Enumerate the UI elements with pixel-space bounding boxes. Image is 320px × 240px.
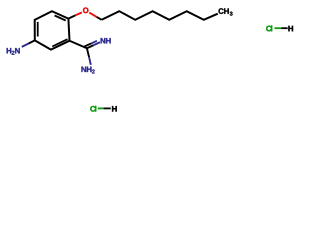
label H2N — [7, 48, 12, 53]
benzene ring outer bonds — [35, 11, 70, 49]
bond ring to O black half — [68, 15, 75, 18]
ring double bond inner line top-right edge — [55, 16, 66, 21]
label Cl of first HCl — [266, 26, 271, 32]
label CH3 — [219, 8, 224, 14]
bond ring to amine nitrogen blue half — [22, 44, 29, 47]
label Cl of second HCl — [90, 106, 95, 112]
amidine C=NH double bond main line blue half — [93, 42, 100, 45]
bond ring to amine nitrogen black half — [29, 40, 35, 43]
first HCl bond green half — [275, 27, 282, 29]
label NH2 — [81, 67, 86, 72]
label NH imine — [101, 38, 106, 43]
bond amidine C to NH2 black half — [87, 48, 89, 57]
bond amidine C to NH2 blue half — [89, 57, 91, 65]
bond O to chain C1 red half — [89, 13, 96, 17]
label H of second HCl — [112, 106, 117, 111]
label O — [83, 8, 88, 14]
second HCl bond black half — [104, 107, 111, 109]
bond ring to O red half — [75, 12, 82, 15]
label H of first HCl — [288, 26, 293, 31]
amidine C=NH double bond inner line black half — [84, 43, 91, 46]
bond O to chain C1 black half — [97, 17, 102, 20]
ring double bond inner line bottom-right edge — [52, 39, 67, 46]
second HCl bond green half — [98, 107, 104, 109]
bond ring to amidine carbon — [70, 41, 87, 49]
amidine C=NH double bond main line black half — [87, 45, 94, 48]
first HCl bond black half — [281, 27, 288, 29]
amidine C=NH double bond inner line blue half — [92, 41, 97, 43]
ring double bond inner line left edge — [37, 22, 39, 37]
octyl chain zigzag bonds — [102, 11, 218, 20]
